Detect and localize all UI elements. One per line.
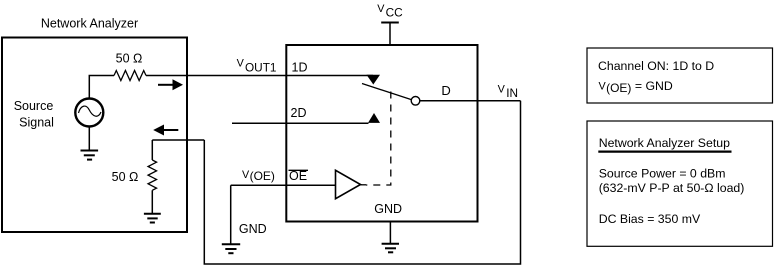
svg-text:D: D (441, 83, 450, 98)
wire source bottom to ground (88, 127, 90, 151)
svg-text:DC Bias = 350 mV: DC Bias = 350 mV (599, 212, 701, 226)
svg-text:Channel ON: 1D to D: Channel ON: 1D to D (598, 59, 714, 73)
ground under source (81, 151, 99, 160)
svg-text:VOUT1: VOUT1 (237, 58, 277, 75)
svg-text:2D: 2D (291, 106, 307, 120)
arrow left (return signal direction) (153, 125, 178, 136)
buffer output stub (361, 184, 367, 186)
wire VCC to box (389, 23, 391, 46)
wire device GND to ground (389, 222, 391, 244)
note text channel on (598, 59, 714, 95)
ground under V(OE) (222, 244, 240, 253)
switch throw 2D arrowhead (368, 113, 380, 123)
switch pole diagonal (362, 84, 413, 101)
wire D to VIN corner (420, 100, 521, 102)
switch throw 1D arrowhead (367, 75, 381, 85)
resistor R2 50 ohm vertical (148, 140, 157, 214)
svg-text:Network Analyzer Setup: Network Analyzer Setup (599, 136, 730, 150)
wire VOUT1 : resistor to 1D pin (146, 75, 373, 77)
pin label OE with overline (289, 169, 309, 183)
svg-text:Signal: Signal (19, 115, 54, 129)
wire V(OE) to OE pin (231, 184, 336, 186)
buffer gate on OE (336, 170, 361, 198)
resistor R1 50 ohm horizontal (114, 71, 146, 81)
svg-text:Source: Source (14, 99, 54, 113)
wire source top to resistor (89, 76, 114, 99)
svg-text:50 Ω: 50 Ω (112, 170, 139, 184)
mux device box (286, 45, 477, 222)
svg-text:V(OE) = GND: V(OE) = GND (599, 79, 673, 95)
svg-text:VIN: VIN (498, 84, 518, 101)
ground under R2 (144, 214, 161, 223)
svg-text:(632-mV P-P at 50-Ω load): (632-mV P-P at 50-Ω load) (599, 181, 745, 195)
network analyzer box (2, 38, 187, 233)
arrow right (signal direction) (158, 79, 183, 90)
label Source Signal (14, 99, 54, 130)
dashed control line (366, 92, 391, 186)
note text setup (598, 136, 744, 226)
svg-text:V(OE): V(OE) (242, 169, 275, 183)
svg-text:GND: GND (239, 222, 267, 236)
svg-text:VCC: VCC (377, 3, 403, 20)
wire OE node down to ground (230, 185, 232, 244)
svg-text:GND: GND (374, 202, 402, 216)
wire bottom return loop (204, 101, 520, 264)
svg-text:OE: OE (289, 169, 307, 183)
svg-text:1D: 1D (292, 61, 308, 75)
svg-text:Network Analyzer: Network Analyzer (41, 16, 138, 30)
ground under device (382, 244, 399, 253)
svg-text:50 Ω: 50 Ω (116, 52, 143, 66)
svg-text:Source Power = 0 dBm: Source Power = 0 dBm (599, 167, 726, 181)
source V1 sine generator (75, 99, 103, 127)
wire return path into box (152, 139, 204, 141)
note box network analyzer setup (587, 121, 773, 246)
wire 2D stub (232, 122, 369, 124)
VCC rail bar (381, 22, 399, 24)
note box channel on (587, 48, 773, 103)
switch common circle D (411, 97, 420, 106)
